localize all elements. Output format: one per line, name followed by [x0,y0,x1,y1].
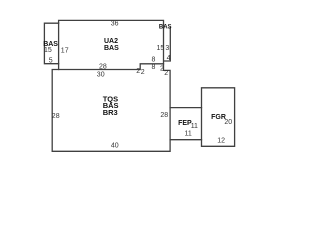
svg-text:40: 40 [111,143,119,150]
svg-text:4: 4 [167,55,171,62]
svg-text:30: 30 [97,71,105,78]
svg-text:28: 28 [99,64,107,71]
svg-text:5: 5 [49,57,53,64]
svg-text:BR3: BR3 [103,108,118,117]
svg-text:36: 36 [111,21,119,28]
svg-text:BAS: BAS [104,45,119,52]
svg-text:15: 15 [44,47,52,54]
svg-text:28: 28 [160,112,168,119]
svg-text:8: 8 [152,56,156,63]
svg-text:15: 15 [157,45,165,52]
svg-text:11: 11 [191,123,198,130]
svg-text:2: 2 [141,69,145,76]
svg-text:2: 2 [136,68,140,75]
svg-text:BAS: BAS [159,25,172,31]
svg-text:8: 8 [152,64,156,71]
svg-text:UA2: UA2 [104,38,118,45]
svg-text:12: 12 [217,138,225,145]
svg-text:11: 11 [185,130,192,137]
svg-text:28: 28 [52,113,60,120]
svg-text:17: 17 [61,48,69,55]
svg-text:3: 3 [165,45,169,52]
svg-text:2: 2 [164,70,168,77]
svg-text:20: 20 [224,119,232,126]
